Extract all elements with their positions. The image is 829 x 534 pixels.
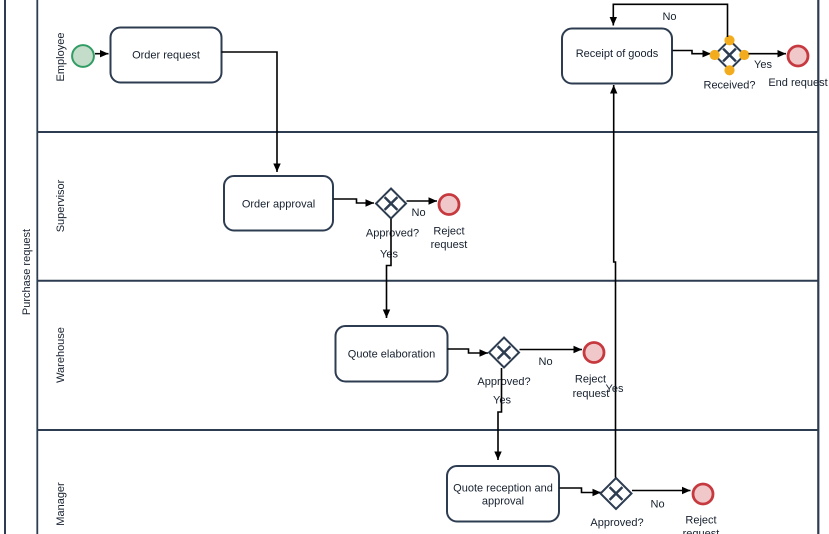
wire G4 Yes to End request event	[749, 53, 787, 55]
svg-text:Yes: Yes	[606, 383, 624, 395]
lane label Employee	[55, 33, 67, 82]
label Yes (G1)	[380, 248, 398, 260]
svg-text:No: No	[651, 499, 665, 511]
pool label divider	[36, 0, 38, 534]
task Quote reception and approval	[447, 466, 559, 522]
label Approved? (G3)	[590, 517, 643, 529]
label No (G4)	[662, 11, 676, 23]
svg-text:Receipt of goods: Receipt of goods	[576, 48, 659, 60]
end event Reject request (Warehouse)	[584, 343, 604, 363]
lane divider Warehouse/Manager	[37, 429, 818, 431]
pool "Purchase request" left border	[4, 0, 6, 534]
end event Reject request (Manager)	[693, 484, 713, 504]
svg-text:Reject: Reject	[575, 374, 606, 386]
svg-text:No: No	[539, 356, 553, 368]
lane divider Employee/Supervisor	[37, 131, 818, 133]
svg-text:Employee: Employee	[55, 33, 67, 82]
handle dot left (G4)	[710, 50, 720, 60]
svg-text:Manager: Manager	[55, 482, 67, 526]
label Reject request (Supervisor)	[431, 226, 468, 251]
wire Order approval to gateway G1	[334, 199, 375, 203]
svg-text:Yes: Yes	[380, 248, 398, 260]
label Received?	[704, 80, 756, 92]
svg-text:Approved?: Approved?	[477, 376, 530, 388]
pool label "Purchase request"	[21, 229, 33, 315]
label Yes (G4)	[754, 59, 772, 71]
pool right border	[817, 0, 819, 534]
lane label Warehouse	[55, 327, 67, 383]
gateway G2 Approved? (Warehouse)	[489, 338, 519, 368]
label No (G1)	[412, 207, 426, 219]
gateway G3 Approved? (Manager)	[601, 478, 632, 509]
svg-text:Yes: Yes	[754, 59, 772, 71]
svg-text:Received?: Received?	[704, 80, 756, 92]
wire G1 No to reject event	[407, 200, 438, 202]
end event End request	[788, 46, 808, 66]
wire G2 Yes down to Quote reception	[498, 368, 502, 460]
handle dot bottom (G4)	[724, 65, 734, 75]
svg-text:Quote elaboration: Quote elaboration	[348, 349, 435, 361]
handle dot top (G4)	[724, 35, 734, 45]
label No (G2)	[539, 356, 553, 368]
label Approved? (G2)	[477, 376, 530, 388]
wire Order request to Order approval	[222, 52, 278, 172]
gateway G1 Approved? (Supervisor)	[376, 189, 406, 219]
svg-text:Warehouse: Warehouse	[55, 327, 67, 383]
end event Reject request (Supervisor)	[439, 195, 459, 215]
svg-text:request: request	[431, 239, 468, 251]
wire start event to Order request	[95, 53, 109, 55]
wire Quote reception to gateway G3	[560, 488, 602, 493]
svg-text:Quote reception and: Quote reception and	[453, 483, 553, 495]
lane label Supervisor	[55, 179, 67, 232]
gateway G4 Received?	[715, 40, 745, 70]
svg-text:No: No	[412, 207, 426, 219]
wire G3 No to reject event	[632, 490, 691, 492]
lane divider Supervisor/Warehouse	[37, 280, 818, 282]
wire Quote elaboration to gateway G2	[448, 349, 489, 353]
svg-text:Purchase request: Purchase request	[21, 229, 33, 315]
svg-text:approval: approval	[482, 496, 524, 508]
label End request	[768, 77, 827, 89]
label Reject request (Warehouse)	[573, 374, 610, 401]
svg-text:request: request	[573, 388, 610, 400]
wire Receipt of goods to gateway G4	[673, 51, 712, 54]
label Yes (G3 long wire)	[606, 383, 624, 395]
svg-text:Approved?: Approved?	[366, 228, 419, 240]
svg-text:request: request	[683, 528, 720, 534]
handle dot right (G4)	[739, 50, 749, 60]
start event (Employee)	[72, 45, 94, 67]
label Approved? (G1)	[366, 228, 419, 240]
svg-text:Order approval: Order approval	[242, 199, 315, 211]
svg-text:No: No	[662, 11, 676, 23]
task Order request	[111, 28, 222, 83]
wire G4 No loop back to Receipt of goods	[613, 4, 727, 37]
svg-text:End request: End request	[768, 77, 827, 89]
wire G3 Yes up to Receipt of goods	[614, 85, 616, 478]
task Quote elaboration	[336, 326, 448, 382]
svg-text:Reject: Reject	[685, 515, 716, 527]
task Receipt of goods	[562, 29, 672, 84]
svg-text:Approved?: Approved?	[590, 517, 643, 529]
wire G2 No to reject event	[520, 349, 583, 351]
svg-text:Supervisor: Supervisor	[55, 179, 67, 232]
label No (G3)	[651, 499, 665, 511]
label Yes (G2)	[493, 394, 511, 406]
lane label Manager	[55, 482, 67, 526]
task Order approval	[224, 176, 333, 231]
wire G1 Yes down to Quote elaboration	[387, 219, 392, 318]
label Reject request (Manager)	[683, 515, 720, 534]
svg-text:Reject: Reject	[433, 226, 464, 238]
svg-text:Order request: Order request	[132, 50, 200, 62]
